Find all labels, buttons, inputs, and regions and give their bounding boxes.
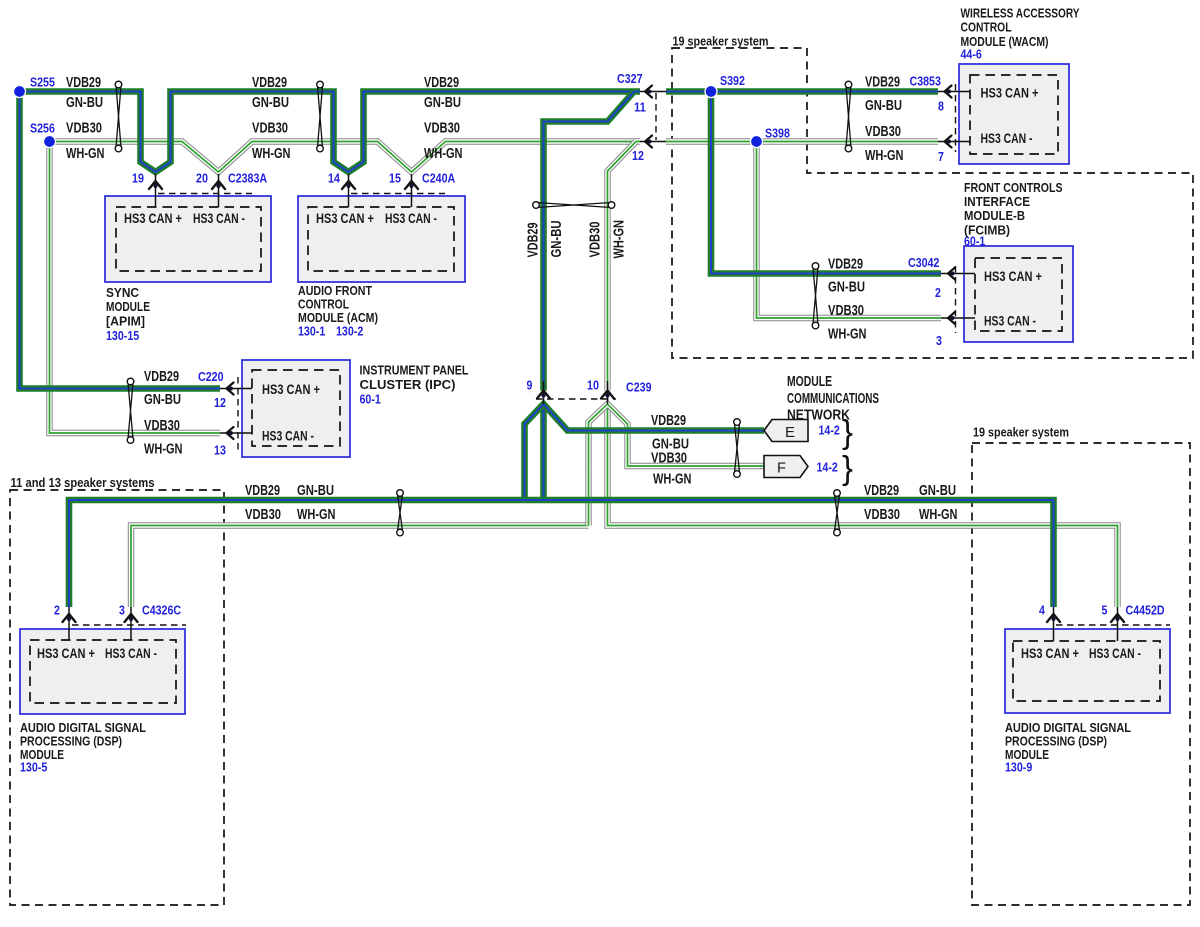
svg-text:WH-GN: WH-GN	[865, 148, 904, 164]
svg-text:WIRELESS ACCESSORY: WIRELESS ACCESSORY	[961, 6, 1080, 21]
svg-text:VDB29: VDB29	[526, 223, 542, 258]
svg-text:130-2: 130-2	[336, 324, 363, 339]
svg-text:(FCIMB): (FCIMB)	[964, 223, 1010, 238]
svg-text:MODULE-B: MODULE-B	[964, 208, 1025, 223]
svg-text:VDB29: VDB29	[651, 413, 686, 429]
svg-text:VDB29: VDB29	[865, 75, 900, 91]
svg-text:VDB29: VDB29	[252, 75, 287, 91]
svg-text:VDB30: VDB30	[252, 121, 288, 137]
svg-text:HS3 CAN +: HS3 CAN +	[316, 211, 374, 226]
svg-text:2: 2	[54, 603, 60, 618]
svg-text:MODULE (ACM): MODULE (ACM)	[298, 310, 378, 325]
svg-text:5: 5	[1102, 603, 1108, 618]
svg-text:GN-BU: GN-BU	[549, 221, 565, 258]
svg-text:VDB30: VDB30	[66, 121, 102, 137]
svg-text:13: 13	[214, 443, 226, 458]
svg-text:CLUSTER (IPC): CLUSTER (IPC)	[360, 377, 456, 392]
svg-text:7: 7	[938, 149, 944, 164]
svg-text:11 and 13 speaker systems: 11 and 13 speaker systems	[11, 475, 155, 490]
svg-text:GN-BU: GN-BU	[919, 483, 956, 499]
svg-text:CONTROL: CONTROL	[961, 20, 1012, 35]
svg-text:C3853: C3853	[910, 74, 941, 89]
svg-text:19 speaker system: 19 speaker system	[973, 425, 1069, 440]
svg-text:20: 20	[196, 171, 208, 186]
svg-text:WH-GN: WH-GN	[297, 507, 336, 523]
svg-text:VDB29: VDB29	[245, 483, 280, 499]
svg-text:E: E	[785, 424, 795, 441]
svg-text:2: 2	[935, 285, 941, 300]
svg-text:HS3 CAN +: HS3 CAN +	[981, 86, 1039, 101]
svg-text:VDB30: VDB30	[245, 507, 281, 523]
svg-text:GN-BU: GN-BU	[424, 95, 461, 111]
svg-text:10: 10	[587, 378, 599, 393]
svg-text:COMMUNICATIONS: COMMUNICATIONS	[787, 391, 879, 407]
svg-text:C2383A: C2383A	[228, 171, 268, 186]
svg-text:C240A: C240A	[422, 171, 456, 186]
svg-text:14: 14	[328, 171, 341, 186]
svg-text:WH-GN: WH-GN	[919, 507, 958, 523]
svg-text:MODULE: MODULE	[1005, 747, 1049, 762]
svg-text:14-2: 14-2	[817, 460, 838, 475]
svg-text:HS3 CAN +: HS3 CAN +	[262, 382, 320, 397]
svg-text:11: 11	[634, 100, 646, 115]
svg-text:GN-BU: GN-BU	[865, 98, 902, 114]
svg-text:19 speaker system: 19 speaker system	[673, 34, 769, 49]
svg-text:VDB30: VDB30	[865, 124, 901, 140]
svg-text:NETWORK: NETWORK	[787, 408, 850, 424]
svg-text:3: 3	[119, 603, 125, 618]
svg-text:HS3 CAN +: HS3 CAN +	[37, 646, 95, 661]
svg-text:19: 19	[132, 171, 144, 186]
svg-text:VDB30: VDB30	[651, 451, 687, 467]
svg-text:14-2: 14-2	[819, 423, 840, 438]
svg-text:C3042: C3042	[908, 255, 939, 270]
svg-text:8: 8	[938, 99, 944, 114]
svg-text:HS3 CAN -: HS3 CAN -	[262, 429, 314, 444]
svg-text:WH-GN: WH-GN	[612, 220, 628, 259]
svg-text:HS3 CAN -: HS3 CAN -	[193, 211, 245, 226]
svg-text:S255: S255	[30, 75, 55, 90]
svg-text:C4452D: C4452D	[1126, 603, 1165, 618]
svg-text:130-15: 130-15	[106, 328, 139, 343]
svg-text:SYNC: SYNC	[106, 285, 140, 300]
svg-text:HS3 CAN -: HS3 CAN -	[385, 211, 437, 226]
svg-text:}: }	[842, 449, 853, 486]
svg-text:3: 3	[936, 333, 942, 348]
svg-text:GN-BU: GN-BU	[828, 280, 865, 296]
svg-text:F: F	[777, 460, 786, 477]
svg-text:HS3 CAN -: HS3 CAN -	[105, 646, 157, 661]
svg-text:VDB30: VDB30	[144, 418, 180, 434]
svg-text:VDB29: VDB29	[864, 483, 899, 499]
svg-text:VDB30: VDB30	[864, 507, 900, 523]
svg-text:VDB30: VDB30	[424, 121, 460, 137]
svg-text:HS3 CAN +: HS3 CAN +	[124, 211, 182, 226]
svg-text:VDB29: VDB29	[424, 75, 459, 91]
svg-text:S256: S256	[30, 121, 55, 136]
svg-text:WH-GN: WH-GN	[828, 327, 867, 343]
svg-text:MODULE: MODULE	[20, 747, 64, 762]
svg-text:HS3 CAN +: HS3 CAN +	[1021, 646, 1079, 661]
svg-text:9: 9	[527, 378, 533, 393]
svg-text:WH-GN: WH-GN	[66, 146, 105, 162]
svg-text:GN-BU: GN-BU	[297, 483, 334, 499]
svg-text:INTERFACE: INTERFACE	[964, 194, 1030, 209]
svg-text:C327: C327	[617, 71, 643, 86]
svg-text:VDB29: VDB29	[828, 257, 863, 273]
svg-text:FRONT CONTROLS: FRONT CONTROLS	[964, 180, 1063, 195]
svg-text:60-1: 60-1	[360, 392, 381, 407]
svg-text:WH-GN: WH-GN	[252, 146, 291, 162]
svg-text:C239: C239	[626, 380, 652, 395]
svg-text:HS3 CAN -: HS3 CAN -	[981, 131, 1033, 146]
svg-text:S398: S398	[765, 126, 790, 141]
svg-text:VDB30: VDB30	[828, 303, 864, 319]
svg-text:VDB29: VDB29	[144, 369, 179, 385]
svg-text:[APIM]: [APIM]	[106, 314, 145, 329]
svg-text:12: 12	[214, 395, 226, 410]
svg-text:WH-GN: WH-GN	[424, 146, 463, 162]
svg-text:HS3 CAN -: HS3 CAN -	[1089, 646, 1141, 661]
svg-text:WH-GN: WH-GN	[653, 472, 692, 488]
svg-text:S392: S392	[720, 73, 745, 88]
svg-text:HS3 CAN -: HS3 CAN -	[984, 314, 1036, 329]
svg-text:C4326C: C4326C	[142, 603, 182, 618]
svg-text:HS3 CAN +: HS3 CAN +	[984, 269, 1042, 284]
svg-text:15: 15	[389, 171, 401, 186]
svg-text:C220: C220	[198, 369, 224, 384]
svg-text:MODULE (WACM): MODULE (WACM)	[961, 34, 1049, 49]
svg-text:MODULE: MODULE	[106, 299, 150, 314]
svg-text:MODULE: MODULE	[787, 374, 832, 390]
svg-text:VDB30: VDB30	[588, 222, 604, 258]
svg-text:VDB29: VDB29	[66, 75, 101, 91]
svg-text:WH-GN: WH-GN	[144, 442, 183, 458]
svg-text:130-1: 130-1	[298, 324, 325, 339]
svg-text:GN-BU: GN-BU	[252, 95, 289, 111]
svg-text:INSTRUMENT PANEL: INSTRUMENT PANEL	[360, 363, 469, 378]
svg-text:4: 4	[1039, 603, 1046, 618]
svg-text:GN-BU: GN-BU	[66, 95, 103, 111]
svg-text:GN-BU: GN-BU	[144, 392, 181, 408]
svg-text:12: 12	[632, 148, 644, 163]
